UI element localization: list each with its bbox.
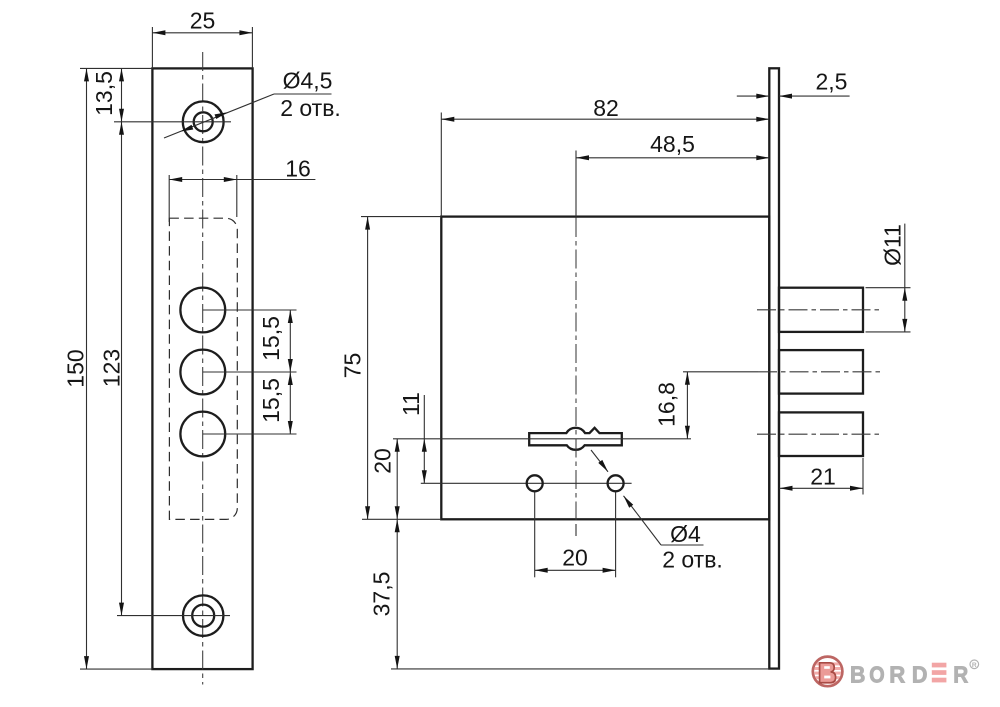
bolt 3 centerline	[757, 433, 882, 435]
svg-text:Ø4,5: Ø4,5	[283, 68, 333, 94]
svg-text:123: 123	[98, 349, 124, 387]
svg-text:75: 75	[339, 353, 365, 379]
bottom extension line	[391, 668, 769, 670]
svg-text:2 отв.: 2 отв.	[280, 95, 341, 121]
svg-text:R: R	[889, 661, 905, 687]
logo emblem circle	[812, 657, 843, 687]
svg-text:20: 20	[369, 448, 395, 474]
svg-text:R: R	[972, 662, 977, 669]
svg-text:25: 25	[190, 8, 216, 34]
dimension diameter 11	[866, 224, 911, 332]
dimension 82	[441, 95, 769, 217]
svg-text:11: 11	[398, 392, 424, 416]
keyhole vertical centerline	[575, 151, 577, 537]
face strip side view	[769, 68, 779, 668]
dimension 15,5 upper	[258, 310, 293, 372]
svg-text:20: 20	[562, 545, 588, 571]
svg-text:O: O	[869, 661, 884, 687]
leader diameter 4,5 two holes	[164, 68, 341, 139]
svg-text:82: 82	[593, 95, 619, 121]
svg-text:16: 16	[285, 155, 311, 181]
fixing hole right	[608, 475, 624, 491]
faceplate vertical centerline	[202, 52, 204, 685]
bolt hole circle 3	[180, 412, 225, 457]
dimension 20 bottom	[535, 492, 616, 578]
svg-text:2 отв.: 2 отв.	[662, 547, 723, 573]
dimension 2,5	[737, 69, 850, 99]
bolt 2 side view	[779, 350, 863, 394]
dimension 11	[398, 392, 427, 483]
lock body outline side view	[441, 217, 769, 520]
bolt 1 side view	[779, 288, 863, 332]
dimension 16,8	[653, 372, 690, 439]
svg-text:D: D	[912, 661, 928, 687]
svg-text:15,5: 15,5	[258, 378, 284, 423]
svg-text:B: B	[850, 661, 865, 687]
dimension 150	[62, 68, 152, 669]
bolt 3 side view	[779, 412, 863, 456]
keyhole horizontal centerline	[393, 438, 691, 440]
bolt hole circle 1	[180, 288, 225, 333]
svg-text:15,5: 15,5	[258, 316, 284, 361]
svg-text:48,5: 48,5	[650, 131, 695, 157]
dimension 123	[98, 122, 124, 616]
leader diameter 4 two holes	[591, 450, 723, 573]
bolt 2 centerline	[683, 371, 882, 373]
logo registered mark	[970, 660, 979, 669]
svg-text:2,5: 2,5	[816, 69, 848, 95]
bottom screw hole	[183, 595, 223, 635]
bolt circle centerlines	[203, 310, 297, 434]
dimension 20 left	[369, 439, 399, 520]
svg-text:21: 21	[810, 464, 836, 490]
dimension 25	[152, 8, 252, 69]
svg-text:Ø4: Ø4	[670, 521, 701, 547]
dimension 15,5 lower	[258, 372, 293, 434]
svg-text:37,5: 37,5	[368, 572, 394, 617]
dimension 21	[780, 458, 864, 495]
svg-text:16,8: 16,8	[653, 382, 679, 427]
bolt hole circle 2	[180, 350, 225, 395]
logo text BORDER	[850, 661, 969, 687]
bolt 1 centerline	[757, 309, 882, 311]
svg-text:Ø11: Ø11	[879, 224, 905, 266]
dimension 16	[169, 155, 315, 222]
logo emblem letter B	[820, 663, 836, 683]
faceplate front view outline	[152, 68, 252, 669]
top hole horizontal centerline	[114, 121, 231, 123]
dimension 48,5	[576, 131, 769, 160]
top screw hole	[183, 101, 224, 142]
fixing hole left	[527, 475, 543, 491]
dashed body cutout on front plate	[169, 218, 237, 519]
svg-text:150: 150	[62, 349, 88, 387]
dimension 37,5	[368, 519, 399, 669]
svg-text:13,5: 13,5	[91, 71, 117, 116]
fixing holes centerline	[421, 482, 632, 484]
bottom hole horizontal centerline	[117, 615, 230, 617]
svg-text:R: R	[953, 661, 968, 687]
keyhole slot	[529, 428, 622, 450]
dimension 13,5	[91, 68, 124, 121]
dimension 75	[339, 217, 441, 520]
